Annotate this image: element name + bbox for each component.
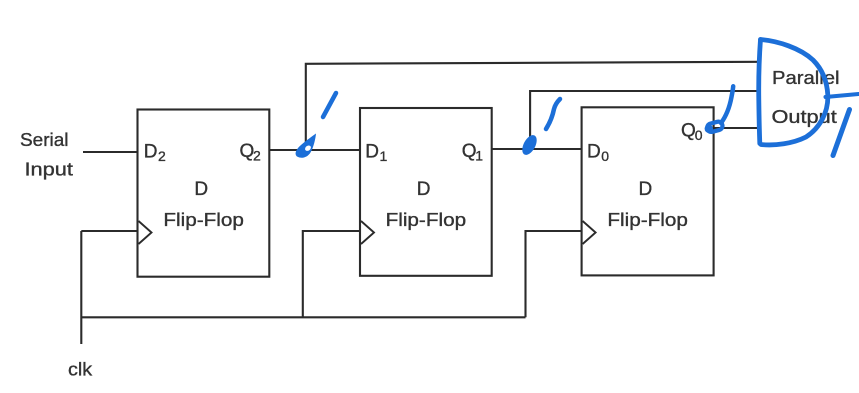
svg-text:Input: Input: [25, 159, 74, 180]
wire Q2 riser to parallel output (top): [306, 62, 760, 150]
wire Q2 to D1: [269, 149, 360, 151]
flip-flop U2 box: [360, 108, 492, 276]
svg-text:D: D: [144, 142, 158, 163]
svg-text:D: D: [417, 179, 431, 200]
clk stem wire: [80, 231, 82, 344]
svg-text:D: D: [639, 179, 653, 200]
wire clk riser to U3 clock: [526, 231, 582, 317]
svg-text:2: 2: [253, 148, 261, 164]
label D0: [587, 142, 609, 164]
wire serial input to D2: [83, 151, 138, 153]
svg-text:Serial: Serial: [20, 129, 69, 150]
clock triangle U1: [139, 221, 152, 244]
svg-text:0: 0: [601, 148, 609, 164]
svg-text:Flip-Flop: Flip-Flop: [163, 209, 244, 230]
svg-text:Flip-Flop: Flip-Flop: [386, 209, 467, 230]
svg-text:D: D: [587, 142, 601, 163]
net label Parallel Output: [772, 67, 840, 127]
label D2: [144, 142, 166, 164]
svg-text:clk: clk: [68, 359, 93, 380]
net label Serial Input: [20, 129, 73, 180]
clk bus wire: [81, 316, 525, 318]
clock triangle U3: [583, 221, 596, 244]
svg-text:1: 1: [380, 148, 388, 164]
annotation blue dash right of loop: [826, 94, 859, 97]
label D1: [365, 142, 387, 164]
svg-text:Parallel: Parallel: [772, 67, 840, 88]
wire clk to U1 clock: [81, 230, 137, 232]
flip-flop U1 box: [138, 110, 270, 277]
wire Q1 riser to parallel output (middle): [530, 91, 759, 149]
wire Q1 to D0: [492, 148, 582, 150]
svg-text:0: 0: [695, 127, 703, 143]
annotation blue loop around Parallel Output: [759, 40, 828, 145]
svg-text:D: D: [194, 179, 208, 200]
annotation blue slash above Q1 node: [546, 99, 560, 129]
wire Q0 to parallel output: [714, 127, 759, 129]
annotation blue tick at Q2 node: [296, 134, 316, 158]
label Q2: [240, 141, 262, 164]
annotation blue capsule at Q0: [705, 121, 724, 133]
wire clk riser to U2 clock: [303, 231, 360, 317]
svg-text:D: D: [365, 142, 379, 163]
label Q0: [681, 120, 703, 143]
svg-text:Flip-Flop: Flip-Flop: [607, 209, 688, 230]
label Q1: [462, 141, 484, 164]
clock triangle U2: [361, 221, 374, 244]
svg-text:Q: Q: [681, 120, 696, 141]
svg-text:1: 1: [475, 148, 483, 164]
svg-text:2: 2: [158, 148, 166, 164]
annotation blue slash above Q2 node: [323, 93, 336, 117]
annotation blue slash bottom right: [833, 110, 850, 156]
annotation blue curve from Q0 up: [721, 86, 733, 123]
annotation blue tick at Q1 node: [519, 133, 539, 158]
flip-flop U3 box: [582, 107, 714, 275]
